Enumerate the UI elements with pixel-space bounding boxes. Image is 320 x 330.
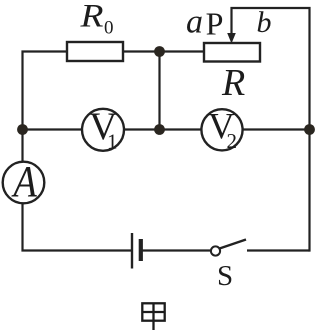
svg-text:1: 1 (107, 130, 118, 154)
svg-text:2: 2 (227, 129, 238, 153)
svg-text:R: R (221, 62, 245, 104)
svg-text:A: A (11, 156, 38, 205)
svg-text:S: S (217, 260, 233, 292)
svg-text:P: P (206, 6, 224, 42)
svg-text:R: R (79, 0, 103, 35)
svg-text:b: b (257, 6, 272, 39)
svg-text:0: 0 (104, 18, 114, 39)
svg-text:a: a (186, 4, 203, 41)
